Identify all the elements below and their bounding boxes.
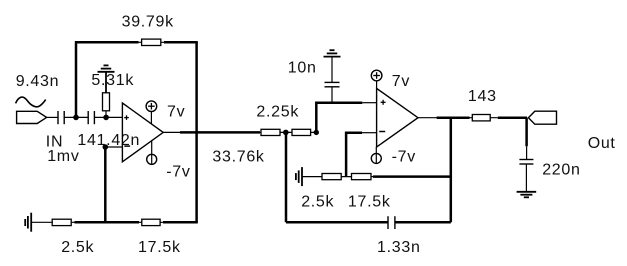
svg-text:143: 143 <box>468 88 497 105</box>
svg-text:7v: 7v <box>392 73 410 90</box>
svg-text:2.25k: 2.25k <box>256 104 299 121</box>
wire bottom rail stage1 right <box>163 221 198 224</box>
wire top feedback rail right <box>164 41 198 44</box>
svg-text:2.5k: 2.5k <box>301 194 334 211</box>
resistor R 17.5k stage2 right lead <box>371 176 375 178</box>
node minus junction dot <box>103 144 109 150</box>
feedback vertical stage2 <box>450 118 453 223</box>
svg-text:220n: 220n <box>542 161 580 178</box>
resistor R 39.79k <box>142 39 161 45</box>
svg-text:9.43n: 9.43n <box>16 73 60 90</box>
resistor R 5.31k lead <box>105 93 107 118</box>
resistor R 143 <box>472 115 490 121</box>
svg-text:17.5k: 17.5k <box>348 194 391 211</box>
wire right vertical stage1 <box>195 42 198 222</box>
node A junction dot <box>73 115 79 121</box>
svg-text:1mv: 1mv <box>47 148 79 165</box>
op-amp U2 <box>377 88 418 147</box>
wire output node down <box>525 118 528 147</box>
op-amp U1 minus input marker <box>124 145 130 147</box>
wire row to feedback vertical <box>373 175 451 178</box>
wire node A up to feedback rail <box>75 44 78 118</box>
wire ground to R 2.5k <box>31 221 52 223</box>
wire C1 to C2 <box>64 116 88 118</box>
resistor R 33.76k lead <box>260 131 316 133</box>
resistor R 39.79k lead <box>139 41 165 43</box>
ground above 5.31k <box>98 65 115 92</box>
capacitor C1 9.43n <box>58 111 64 124</box>
resistor R 5.31k <box>103 93 110 111</box>
bottom rail stage2 left <box>286 221 388 224</box>
resistor R 143 lead <box>470 117 498 119</box>
op-amp U2 plus input marker <box>381 100 386 105</box>
wire ground to R 2.5k stage2 <box>302 176 322 178</box>
svg-text:7v: 7v <box>167 103 185 120</box>
resistor R 2.5k stage1 lead <box>52 221 76 223</box>
wire C2 to op-amp + input <box>94 116 122 118</box>
wire U1 minus input <box>105 146 122 148</box>
op-amp U1 <box>122 103 163 162</box>
svg-text:Out: Out <box>588 135 616 152</box>
op-amp U2 minus input marker <box>379 131 385 133</box>
wire bottom rail stage1 left <box>75 221 140 224</box>
op-amp U1 V- power pin <box>147 140 157 164</box>
op-amp U2 V- power pin <box>371 147 381 163</box>
wire top feedback rail left <box>75 41 139 44</box>
wire R 143 to port <box>498 116 527 119</box>
svg-text:10n: 10n <box>288 60 317 77</box>
wire U2 output <box>418 117 437 119</box>
ground stage1 <box>25 213 31 232</box>
wire U1 output <box>163 131 180 133</box>
capacitor C2 141.42n <box>88 111 94 124</box>
port IN <box>17 111 47 123</box>
corner junction dot <box>314 130 319 135</box>
svg-text:-7v: -7v <box>166 163 190 180</box>
wire port to C1 <box>47 116 58 118</box>
svg-text:1.33n: 1.33n <box>377 239 421 256</box>
op-amp U1 plus input marker <box>124 115 129 120</box>
ground below 220n <box>517 192 537 198</box>
capacitor C 220n <box>519 160 533 165</box>
svg-text:39.79k: 39.79k <box>122 14 175 31</box>
resistor R 33.76k <box>261 129 280 135</box>
wire minus node down to bottom rail <box>104 147 107 222</box>
svg-text:5.31k: 5.31k <box>91 72 134 89</box>
ground above 10n <box>324 50 341 56</box>
resistor R 17.5k stage1 <box>142 219 160 225</box>
capacitor C 10n <box>325 57 340 103</box>
wire U2 minus input <box>362 132 377 134</box>
resistor R 2.5k stage2 lead <box>322 176 352 178</box>
svg-text:-7v: -7v <box>392 148 416 165</box>
svg-text:33.76k: 33.76k <box>212 149 265 166</box>
op-amp U2 V+ power pin <box>371 70 382 88</box>
port Out <box>528 111 556 124</box>
resistor R 2.5k stage2 <box>322 174 341 180</box>
resistor R 17.5k stage1 lead <box>139 221 164 223</box>
wire C 220n to ground <box>525 164 527 192</box>
ground stage2 <box>296 167 302 186</box>
resistor R 2.25k <box>292 129 311 135</box>
svg-text:17.5k: 17.5k <box>138 239 181 256</box>
node X down wire <box>285 132 288 222</box>
source V1 sine symbol <box>16 97 46 107</box>
wire lead to U2 plus input <box>362 102 376 104</box>
capacitor C 1.33n <box>388 216 395 229</box>
wire corner up and right to U2 <box>316 103 362 133</box>
svg-text:2.5k: 2.5k <box>61 239 94 256</box>
op-amp U1 V+ power pin <box>146 101 157 124</box>
node X junction dot <box>283 130 289 136</box>
bottom rail stage2 right <box>395 221 451 224</box>
resistor R 2.5k stage1 <box>52 219 71 225</box>
node B junction dot <box>103 115 109 121</box>
resistor R 17.5k stage2 <box>352 174 372 180</box>
